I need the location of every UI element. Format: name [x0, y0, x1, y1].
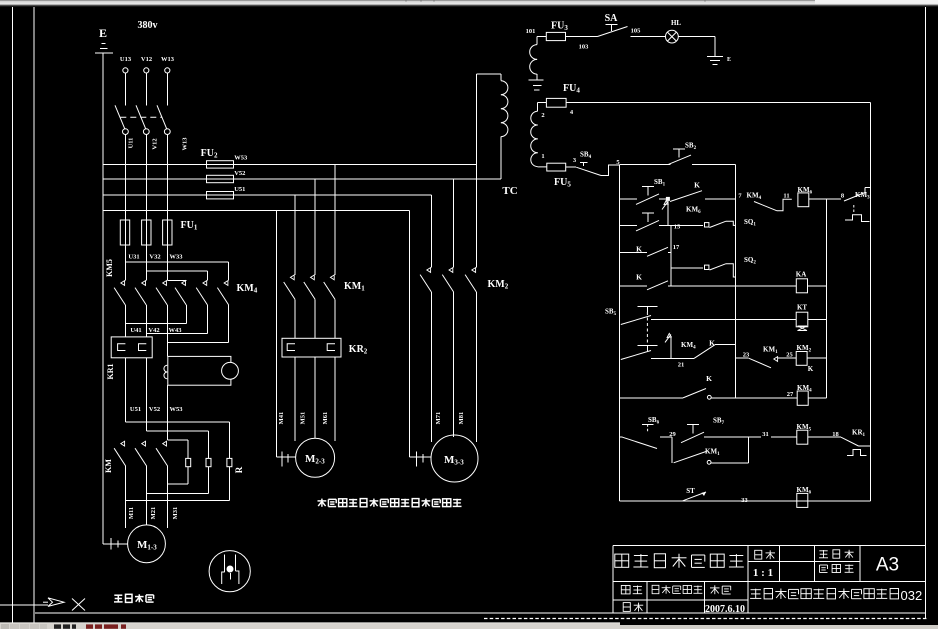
fuse FU3 [546, 32, 565, 40]
switch lower circle V [143, 129, 149, 135]
resistor R3 [227, 458, 232, 466]
rung2 wire coil to rail [809, 198, 841, 200]
contact KM5-V [142, 281, 146, 286]
KT delay dashes [853, 205, 855, 214]
title cell zhitu [621, 586, 642, 595]
TC secondary2 bottom corner [538, 166, 547, 168]
TC primary left wire [475, 74, 477, 179]
svg-text:R: R [234, 466, 244, 473]
wire N to M3 frame [409, 211, 411, 458]
KR1 heater element V [139, 344, 147, 351]
wire M3-1 [430, 292, 432, 442]
title cell diyizhang [820, 565, 854, 573]
rung7 wire to coil [778, 357, 796, 359]
thermal relay KR1 box [111, 337, 152, 358]
contact KM1-3 [330, 275, 334, 280]
svg-text:M31: M31 [172, 507, 179, 520]
ladder bottom rung [619, 500, 870, 502]
double button SB5 lower blade [621, 351, 651, 360]
svg-text:1 : 1: 1 : 1 [753, 567, 773, 579]
wire FU3 to SA [566, 36, 598, 38]
contact KM3-U [121, 441, 125, 446]
border frame bottom line [35, 612, 926, 614]
svg-text:U31: U31 [128, 254, 139, 261]
wire M2-1 [294, 357, 296, 441]
speed relay internals [224, 554, 226, 572]
KM4 return pole1 to U [185, 305, 187, 324]
svg-text:15: 15 [674, 224, 681, 231]
TC primary top wire [476, 73, 501, 75]
rung3 wire left [619, 224, 637, 226]
title text dianqi kongzhi yuanli tu [615, 554, 744, 568]
rung8 wire right [711, 397, 797, 399]
svg-text:21: 21 [678, 362, 685, 369]
svg-text:W53: W53 [170, 406, 184, 413]
svg-text:K: K [706, 374, 712, 383]
svg-text:29: 29 [669, 431, 676, 438]
wire N tap to M2 frame [275, 211, 277, 458]
svg-text:U51: U51 [234, 186, 245, 193]
svg-text:W43: W43 [169, 327, 183, 334]
title block grid [613, 544, 926, 546]
contact KM2-1 [427, 268, 431, 273]
svg-text:17: 17 [673, 244, 680, 251]
contact KR1 NC thermal [841, 437, 859, 446]
title school text [750, 589, 898, 599]
contact K rung2 NO [670, 191, 702, 202]
button SB3 NC [642, 212, 654, 214]
fuse FU1-W [163, 220, 172, 245]
svg-text:K: K [694, 181, 700, 190]
svg-text:V12: V12 [151, 138, 158, 149]
contact KM4-3 [224, 281, 228, 286]
rung7 from mid rail [735, 357, 748, 359]
KR1 heater element U [118, 344, 126, 351]
svg-text:1: 1 [541, 153, 544, 160]
vertical wire 15 to 17 [670, 225, 672, 285]
paper edge dashed bottom line [484, 618, 928, 620]
svg-text:W13: W13 [161, 56, 175, 63]
contact KM4 vertical [667, 333, 671, 337]
svg-text:105: 105 [631, 28, 642, 35]
button SB2 NO [673, 148, 685, 150]
brake body rectangle [168, 356, 231, 385]
wire lamp to ground [678, 36, 715, 38]
wire V KM3 to M1 [145, 466, 147, 525]
rung2 wire node7 [705, 198, 735, 200]
tab nav buttons [1, 624, 9, 629]
rung7 wire coil to rail [807, 357, 826, 359]
svg-text:M71: M71 [435, 412, 442, 425]
svg-text:KT: KT [797, 304, 807, 312]
coil KM6r [797, 493, 808, 507]
svg-text:W53: W53 [234, 155, 248, 162]
double button SB5 lower bar [638, 345, 658, 347]
svg-text:M61: M61 [322, 412, 329, 425]
title cell gongyizhang [819, 550, 854, 558]
contact KM6 vertical [664, 201, 668, 205]
disconnect switch blade W [157, 105, 167, 129]
TC secondary1 top corner [537, 36, 546, 38]
wire W phase switch to KM5 [166, 135, 168, 281]
button SB6 actuator [642, 423, 654, 425]
wire KM1-2 from bus V52 [314, 179, 316, 275]
svg-text:032: 032 [901, 588, 923, 603]
wire U below KR1 [124, 358, 126, 422]
svg-text:HL: HL [671, 19, 681, 27]
svg-text:TC: TC [502, 185, 517, 197]
resistor R1 [186, 458, 191, 466]
M3 frame connector [410, 456, 432, 458]
rung2 wire mid [659, 198, 668, 200]
wire V phase terminal to switch [145, 73, 147, 106]
vertical wire node to 15 [667, 201, 669, 226]
rung7 wire left [651, 357, 694, 359]
svg-text:27: 27 [787, 391, 794, 398]
svg-text:V32: V32 [149, 254, 160, 261]
limit switch SQ1 [705, 223, 709, 227]
border frame left line 1 [11, 7, 13, 623]
switch lower circle U [123, 129, 129, 135]
SQ2 branch wire [671, 267, 703, 269]
svg-text:M81: M81 [458, 412, 465, 425]
contact KM5-U [121, 281, 125, 286]
resistor loop W top [167, 439, 188, 441]
svg-text:U11: U11 [128, 138, 135, 149]
UCS icon X label [72, 599, 85, 611]
wire KM2-2 from bus V52 [453, 179, 455, 267]
KM4 tap U to pole3 [125, 261, 228, 263]
wire V phase switch to KM5 [145, 135, 147, 281]
contact KM1 NC [749, 358, 771, 368]
border bottom stub through left lines [0, 604, 48, 606]
switch SA actuator [606, 24, 618, 26]
rung9 wire to coil [771, 436, 797, 438]
rung5 wire to KA coil [668, 285, 796, 287]
speed relay circle [209, 551, 250, 592]
contact KM5-W [163, 281, 167, 286]
tab layout label [86, 624, 126, 628]
svg-text:31: 31 [762, 431, 769, 438]
KT delay mark [798, 326, 808, 331]
fuse FU1-U [120, 220, 129, 245]
button SB7 NC [687, 424, 699, 426]
bypass wire [711, 462, 749, 464]
double button SB5 upper blade [621, 316, 651, 325]
svg-text:E: E [727, 57, 731, 63]
M1 frame earth connector [103, 543, 128, 545]
wire KM1-2 to KR2 [314, 299, 316, 338]
terminal circle U13 [123, 68, 128, 73]
KM4 return pole3 to W [228, 305, 230, 343]
ladder left rail [618, 165, 620, 501]
bottom tab bar strip [0, 623, 620, 629]
KR2 heater element 2 [327, 344, 335, 351]
wire FU5 to SB4 [566, 166, 577, 168]
svg-text:2007.6.10: 2007.6.10 [705, 604, 745, 615]
double button SB5 upper bar [638, 306, 658, 308]
brake armature circle [222, 362, 239, 379]
wire KM1-3 from bus W53 [334, 164, 336, 274]
svg-text:U13: U13 [120, 56, 132, 63]
wire KM1-3 to KR2 [334, 299, 336, 338]
fuse FU4 [546, 98, 566, 107]
title cell shenhe [623, 603, 643, 612]
wire M2-3w [334, 357, 336, 441]
contact KM2-3 [472, 268, 476, 273]
svg-text:W33: W33 [170, 254, 184, 261]
svg-text:V52: V52 [149, 406, 160, 413]
contact KM4-2 [203, 281, 207, 286]
resistor loop V bottom [208, 467, 210, 494]
border frame left line 2 [33, 7, 35, 623]
limit switch SQ2 [705, 265, 709, 269]
KM4 tap W to pole1 [167, 279, 186, 281]
rung3 wire to node [659, 224, 668, 226]
svg-text:K: K [636, 273, 642, 282]
brake coil bumps on W wire [164, 365, 167, 379]
wire U KM3 to M1 [124, 466, 126, 528]
vertical KM4 contact wire [670, 336, 672, 359]
terminal circle V12 [144, 68, 149, 73]
coil KM4r [797, 391, 808, 405]
fuse FU2-2 [207, 175, 234, 182]
disconnect switch linkage dashed [120, 116, 162, 118]
contact KM1-1 [290, 275, 294, 280]
svg-text:33: 33 [741, 497, 748, 504]
KT delay bracket [845, 215, 870, 222]
rung1 wire left [619, 164, 670, 166]
svg-text:V42: V42 [148, 327, 159, 334]
rung9 wire coil right [808, 436, 841, 438]
switch SA blade [598, 27, 628, 37]
double button SB5 link dashed [646, 312, 648, 344]
M2 frame connector [276, 456, 295, 458]
rung5 wire left [619, 285, 647, 287]
svg-text:M41: M41 [278, 412, 285, 425]
contact KM3 NO [844, 193, 865, 202]
node square 15 junction [666, 197, 670, 201]
lamp ground symbol [707, 56, 723, 58]
wire M3-2 [453, 292, 455, 437]
wire KM1-1 from bus U51 [294, 195, 296, 275]
svg-text:25: 25 [786, 352, 793, 359]
control top rail from FU4 [566, 102, 871, 104]
rung9 wire left [619, 436, 622, 438]
switch lower circle W [164, 129, 170, 135]
ground symbol under E [102, 42, 106, 44]
disconnect switch blade V [136, 105, 146, 129]
PE wire from E ground down to M1 frame [102, 53, 104, 544]
terminal circle W13 [165, 68, 170, 73]
resistor loop V top [146, 430, 208, 432]
contact K rung8 [683, 389, 706, 398]
svg-text:U51: U51 [130, 406, 141, 413]
svg-text:V12: V12 [141, 56, 152, 63]
wire U phase switch to KM5 [124, 135, 126, 281]
thermal relay KR2 box [282, 338, 341, 357]
contact KM2-2 [449, 268, 453, 273]
svg-text:ST: ST [686, 487, 695, 495]
border frame right line [925, 7, 927, 618]
wire V below KM5 to KR1 [145, 305, 147, 337]
wire SA to lamp [631, 36, 666, 38]
svg-text:M51: M51 [300, 412, 307, 425]
resistor loop W bottom [187, 467, 189, 484]
svg-text:11: 11 [783, 193, 789, 200]
svg-text:E: E [99, 26, 107, 40]
button SB4 actuator [580, 162, 587, 164]
TC secondary2 coil [531, 111, 538, 125]
button SB1 NC [642, 185, 654, 187]
svg-text:KR1: KR1 [106, 364, 115, 380]
wire M2-2 [314, 357, 316, 438]
wire M3-3w [475, 292, 477, 442]
svg-text:18: 18 [832, 431, 839, 438]
tab model label [54, 624, 76, 628]
coil KM2r [796, 352, 807, 366]
fuse FU5 [547, 163, 566, 171]
rung1 wire right [692, 164, 735, 166]
rung8 wire left [619, 397, 683, 399]
bypass branch down [671, 437, 673, 463]
contact KM3-V [142, 441, 146, 446]
disconnect switch blade U [115, 105, 125, 129]
wire W below KM5 [166, 305, 168, 356]
wire W phase terminal to switch [166, 73, 168, 106]
coil KM6 [798, 193, 809, 207]
bus line W53 [103, 163, 476, 165]
UCS icon X-axis arrow [48, 598, 64, 607]
svg-text:V52: V52 [234, 170, 245, 177]
KM4 return pole2 to V [207, 305, 209, 334]
svg-text:U41: U41 [130, 327, 141, 334]
contact KM1-2 [311, 275, 315, 280]
svg-text:M21: M21 [150, 507, 157, 520]
button SB6 blade [622, 437, 657, 448]
TC secondary2 link [538, 102, 547, 104]
ladder inner rail [825, 199, 827, 398]
window top toolbar edge strip [0, 0, 938, 1]
rung4 wire [619, 251, 647, 253]
rung9 wire mid [704, 436, 749, 438]
rung2 wire left [619, 198, 637, 200]
contact K rung7 [694, 345, 715, 359]
svg-text:23: 23 [743, 352, 750, 359]
ladder mid rail [734, 165, 736, 398]
rung8 wire coil to rail [808, 397, 826, 399]
motor M2 circle [296, 438, 335, 477]
contact ST [683, 492, 706, 501]
coil KT [796, 312, 808, 327]
svg-text:KA: KA [796, 271, 807, 279]
label main motor [114, 594, 154, 602]
resistor R2 [206, 458, 211, 466]
wire W below brake [166, 385, 168, 440]
bus line U51 [103, 194, 431, 196]
resistor loop U top [125, 421, 229, 423]
KR2 heater element 1 [287, 344, 295, 351]
rung3 wire node to SQ1 [668, 224, 703, 226]
coil KA [796, 279, 807, 293]
svg-text:SA: SA [605, 13, 619, 24]
resistor loop U bottom [228, 467, 230, 501]
contact KM4-1 [182, 281, 186, 286]
svg-text:W13: W13 [181, 137, 188, 151]
wire V below KR1 [145, 358, 147, 431]
rung6 wire [651, 319, 796, 321]
rung6 wire coil to rail [808, 319, 827, 321]
TC primary coil [500, 74, 502, 81]
KM4 tap V to pole2 [146, 270, 207, 272]
svg-text:M11: M11 [128, 507, 135, 519]
contact KM3-W [163, 441, 167, 446]
right rail down from FU4 [870, 103, 872, 501]
wire U phase terminal to switch [124, 73, 126, 106]
svg-text:KM5: KM5 [105, 259, 114, 277]
svg-text:101: 101 [526, 28, 536, 35]
contact KM1 bypass NO [674, 452, 706, 463]
contact KM4 NC [754, 202, 777, 211]
title cell name [652, 585, 702, 593]
fuse FU2-1 [207, 161, 234, 168]
TC shared wire down to KM2 [475, 179, 477, 267]
wire KM2-1 from bus U51 [430, 195, 432, 267]
bus line N [103, 210, 409, 212]
motor M1 circle [128, 525, 166, 563]
label coolant pump and rapid motors [318, 499, 462, 507]
secondary1 ground symbol [528, 79, 543, 81]
motor M3 circle [431, 435, 478, 482]
rung7 wire top [715, 344, 735, 346]
title cell riqi [710, 585, 731, 594]
svg-text:2: 2 [541, 112, 544, 119]
rung5 wire coil to rail [808, 285, 827, 287]
wire KM1-1 to KR2 [294, 299, 296, 338]
wire U below KM5 to KR1 [124, 305, 126, 337]
svg-text:KM: KM [104, 459, 113, 473]
coil KM5r [797, 430, 808, 444]
wire W KM3 to M1 [166, 466, 168, 528]
svg-text:K: K [808, 365, 814, 373]
lamp HL [666, 30, 679, 43]
svg-text:103: 103 [579, 44, 590, 51]
TC secondary1 coil [530, 45, 537, 60]
svg-text:A3: A3 [876, 555, 899, 576]
svg-text:380v: 380v [138, 20, 158, 31]
wire SB4 to node5 [601, 165, 619, 176]
fuse FU1-V [142, 220, 151, 245]
fuse FU2-3 [207, 192, 234, 199]
title cell bili [755, 550, 775, 559]
bus line V52 [103, 178, 501, 180]
button SB4 blade [576, 167, 601, 175]
